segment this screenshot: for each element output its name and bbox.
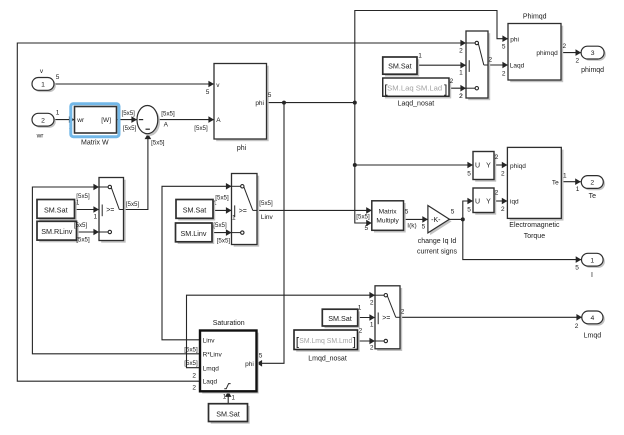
wire Linv feedback from Saturation to Switch2 top <box>162 186 232 339</box>
svg-text:2: 2 <box>370 299 374 306</box>
svg-text:[5x5]: [5x5] <box>217 238 231 245</box>
matrix multiply block <box>374 203 406 233</box>
svg-text:wr: wr <box>76 117 85 124</box>
svg-text:2: 2 <box>359 328 363 335</box>
svg-text:[5x5]: [5x5] <box>126 201 140 208</box>
svg-text:3: 3 <box>591 50 595 57</box>
wire SM.Sat to Switch2 middle <box>213 209 232 211</box>
wire RLinv feedback from Saturation to Switch1 top <box>32 187 200 354</box>
svg-text:wr: wr <box>36 133 45 140</box>
node gain output junction <box>461 217 465 221</box>
svg-text:Multiply: Multiply <box>376 217 399 224</box>
svg-text:Matrix: Matrix <box>379 209 398 216</box>
wire selector U2 to Electromagnetic Torque iqd <box>494 200 507 202</box>
outport 3 phimqd <box>583 48 606 61</box>
svg-text:Phimqd: Phimqd <box>523 14 547 21</box>
svg-text:phiqd: phiqd <box>510 163 526 170</box>
wire gain junction down to outport I <box>463 219 582 259</box>
svg-text:Laqd: Laqd <box>203 379 218 386</box>
svg-text:1: 1 <box>56 109 60 116</box>
svg-text:1: 1 <box>576 186 580 193</box>
svg-text:[5x5]: [5x5] <box>161 110 175 117</box>
svg-text:phimqd: phimqd <box>536 50 558 57</box>
subsystem Electromagnetic Torque <box>510 150 564 221</box>
svg-text:phi: phi <box>510 36 519 43</box>
selector U2 <box>475 190 496 215</box>
wire gain junction up to selector U2 <box>463 201 473 219</box>
svg-text:2: 2 <box>192 385 196 392</box>
switch Switch4 <box>468 33 490 100</box>
svg-text:2: 2 <box>495 154 499 161</box>
inport 1 v <box>34 79 56 92</box>
svg-text:-K-: -K- <box>431 217 441 224</box>
svg-text:>=: >= <box>106 207 114 214</box>
outport 1 I <box>583 255 605 268</box>
svg-text:2: 2 <box>488 56 492 63</box>
wire Matrix W to Sum <box>117 119 138 121</box>
svg-text:iqd: iqd <box>510 199 519 206</box>
svg-text:SM.Linv: SM.Linv <box>181 229 207 238</box>
svg-text:5: 5 <box>451 208 455 215</box>
gain change Iq Id current signs <box>430 208 452 235</box>
subsystem phi <box>216 66 269 142</box>
svg-text:2: 2 <box>495 190 499 197</box>
svg-text:>=: >= <box>382 315 390 322</box>
svg-text:[5x5]: [5x5] <box>194 125 208 132</box>
svg-text:I: I <box>591 272 593 279</box>
Matrix W block (selected) <box>71 104 119 137</box>
svg-text:5: 5 <box>364 225 368 232</box>
constant SM.Sat bottom <box>211 406 250 424</box>
svg-text:2: 2 <box>459 93 463 100</box>
switch Switch1 <box>101 180 126 243</box>
svg-text:Torque: Torque <box>524 233 546 240</box>
wire v input to phi <box>54 83 214 85</box>
svg-text:2: 2 <box>450 78 454 85</box>
svg-text:Lmqd: Lmqd <box>203 365 220 372</box>
constant SM.Sat 2 <box>178 202 215 221</box>
wire Sum to phi A input <box>158 119 214 121</box>
svg-text:R*Linv: R*Linv <box>203 352 223 359</box>
svg-text:1: 1 <box>223 394 227 401</box>
wire wr input to Matrix W <box>54 119 75 121</box>
svg-text:phi: phi <box>237 145 247 152</box>
svg-text:Laqd: Laqd <box>510 63 525 70</box>
svg-text:5: 5 <box>422 224 426 231</box>
svg-text:2: 2 <box>459 47 463 54</box>
constant SM.Linv <box>178 225 215 244</box>
wire Te output to outport 2 <box>561 181 581 183</box>
wire SM.Sat to Switch3 middle <box>358 317 375 319</box>
svg-text:SM.Sat: SM.Sat <box>328 314 352 323</box>
svg-text:2: 2 <box>192 372 196 379</box>
svg-text:SM.Lmq SM.Lmd: SM.Lmq SM.Lmd <box>299 336 352 345</box>
svg-text:1: 1 <box>459 70 463 77</box>
constant SM.Sat top <box>385 59 419 76</box>
svg-text:[5x5]: [5x5] <box>74 222 88 229</box>
saturation icon on Saturation block <box>224 384 230 389</box>
svg-text:Laqd_nosat: Laqd_nosat <box>398 101 435 108</box>
wire phi down to Matrix Multiply <box>355 103 372 223</box>
svg-text:2: 2 <box>562 43 566 50</box>
svg-text:[5x5]: [5x5] <box>213 222 227 229</box>
switch Switch2 <box>234 176 260 247</box>
svg-text:I(k): I(k) <box>407 222 416 229</box>
svg-text:2: 2 <box>41 117 45 124</box>
node phi junction 2 <box>353 101 357 105</box>
svg-text:4: 4 <box>591 315 595 322</box>
svg-text:2: 2 <box>501 171 505 178</box>
svg-text:SM.Laq SM.Lad: SM.Laq SM.Lad <box>387 83 442 92</box>
svg-text:5: 5 <box>575 265 579 272</box>
outport 2 Te <box>583 177 605 190</box>
svg-text:Te: Te <box>552 179 559 186</box>
svg-text:2: 2 <box>370 345 374 352</box>
constant SM.Sat 4 <box>325 311 360 328</box>
svg-text:1: 1 <box>418 52 422 59</box>
svg-text:5: 5 <box>467 171 471 178</box>
svg-text:1: 1 <box>93 214 97 221</box>
svg-text:Linv: Linv <box>203 337 216 344</box>
svg-text:Matrix W: Matrix W <box>81 140 109 147</box>
wire gain output <box>449 218 462 220</box>
outport 4 Lmqd <box>584 313 605 326</box>
wire phimqd output to outport 3 <box>561 52 581 54</box>
wire Matrix Multiply to gain <box>404 218 428 220</box>
svg-text:]: ] <box>444 82 447 96</box>
svg-text:5: 5 <box>502 44 506 51</box>
wire Switch1 output to Sum bottom <box>124 134 148 210</box>
svg-text:1: 1 <box>231 394 235 401</box>
svg-text:2: 2 <box>590 180 594 187</box>
svg-text:5: 5 <box>259 353 263 360</box>
wire Laqd feedback from Saturation to Switch4 top <box>17 43 466 381</box>
wire phi to Phimqd phi input <box>355 11 508 103</box>
svg-text:U: U <box>475 199 480 206</box>
svg-text:current signs: current signs <box>417 249 458 256</box>
svg-text:2: 2 <box>501 206 505 213</box>
wire Laqd_nosat to Switch4 bottom <box>449 87 466 89</box>
wire SM.Linv to Switch2 bottom <box>212 232 232 234</box>
svg-text:SM.Sat: SM.Sat <box>388 62 412 71</box>
svg-text:Saturation: Saturation <box>213 320 245 327</box>
wire Lmqd_nosat to Switch3 bottom <box>358 340 375 342</box>
wire SM.Sat up into Saturation <box>227 392 229 404</box>
svg-text:1: 1 <box>590 257 594 264</box>
svg-text:[W]: [W] <box>101 117 111 124</box>
sum block <box>139 108 160 136</box>
svg-text:Y: Y <box>486 199 491 206</box>
svg-text:[5x5]: [5x5] <box>151 139 165 146</box>
svg-text:Linv: Linv <box>261 214 274 221</box>
subsystem Phimqd <box>510 26 563 82</box>
svg-text:5: 5 <box>56 74 60 81</box>
wire Switch4 output to Phimqd Laqd input <box>488 64 508 66</box>
wire phi output horizontal <box>267 102 355 104</box>
svg-text:]: ] <box>353 334 356 348</box>
constant SM.Sat 1 <box>39 202 76 221</box>
svg-text:phimqd: phimqd <box>581 67 604 74</box>
svg-text:SM.Sat: SM.Sat <box>183 206 207 215</box>
svg-text:Lmqd_nosat: Lmqd_nosat <box>308 355 347 362</box>
wire Switch3 output to outport Lmqd <box>400 316 582 318</box>
subsystem Saturation <box>202 333 259 394</box>
svg-text:5: 5 <box>467 207 471 214</box>
wire Linv switch output to Matrix Multiply <box>257 209 372 211</box>
svg-text:Te: Te <box>589 193 597 200</box>
svg-text:[5x5]: [5x5] <box>123 125 137 132</box>
selector U1 <box>475 154 496 182</box>
wire SM.Sat to Switch1 middle <box>75 209 100 211</box>
svg-text:change Iq Id: change Iq Id <box>418 238 457 245</box>
svg-text:[5x5]: [5x5] <box>76 237 90 244</box>
wire phi to selector U1 <box>355 164 473 166</box>
constant SM.RLinv <box>39 224 78 243</box>
svg-text:2: 2 <box>575 58 579 65</box>
svg-text:2: 2 <box>575 323 579 330</box>
svg-text:U: U <box>475 163 480 170</box>
svg-text:>=: >= <box>239 208 247 215</box>
svg-text:A: A <box>216 117 221 124</box>
svg-text:1: 1 <box>358 304 362 311</box>
svg-text:[5x5]: [5x5] <box>184 360 198 367</box>
node phi junction 1 <box>282 101 286 105</box>
svg-text:SM.Sat: SM.Sat <box>44 206 68 215</box>
constant Lmqd_nosat <box>296 332 360 352</box>
svg-text:Electromagnetic: Electromagnetic <box>509 222 560 229</box>
svg-text:A: A <box>164 122 169 129</box>
svg-text:2: 2 <box>401 309 405 316</box>
svg-text:[5x5]: [5x5] <box>259 200 273 207</box>
svg-text:2: 2 <box>502 70 506 77</box>
wire SM.Sat to Switch4 middle <box>417 64 466 66</box>
wire phi to Saturation phi input <box>257 103 285 364</box>
switch Switch3 <box>377 288 402 351</box>
wire selector U1 to Electromagnetic Torque phiqd <box>494 164 507 166</box>
svg-text:[5x5]: [5x5] <box>215 194 229 201</box>
wire Lmqd feedback from Saturation to Switch3 top <box>187 295 376 368</box>
svg-text:1: 1 <box>232 215 236 222</box>
svg-text:Lmqd: Lmqd <box>584 333 602 340</box>
svg-text:[5x5]: [5x5] <box>356 213 370 220</box>
svg-text:[5x5]: [5x5] <box>184 347 198 354</box>
svg-text:5: 5 <box>206 89 210 96</box>
svg-text:1: 1 <box>370 322 374 329</box>
svg-text:Y: Y <box>486 163 491 170</box>
wire SM.RLinv to Switch1 bottom <box>77 231 100 233</box>
svg-text:phi: phi <box>255 100 264 107</box>
node phi junction 3 <box>353 163 357 167</box>
svg-text:5: 5 <box>405 208 409 215</box>
svg-text:phi: phi <box>245 361 254 368</box>
svg-text:SM.RLinv: SM.RLinv <box>41 227 73 236</box>
svg-text:5: 5 <box>268 92 272 99</box>
constant Laqd_nosat <box>385 80 451 98</box>
inport 2 wr <box>34 115 56 128</box>
svg-text:1: 1 <box>563 173 567 180</box>
svg-text:1: 1 <box>41 82 45 89</box>
svg-text:[5x5]: [5x5] <box>121 110 135 117</box>
svg-text:SM.Sat: SM.Sat <box>216 409 240 418</box>
